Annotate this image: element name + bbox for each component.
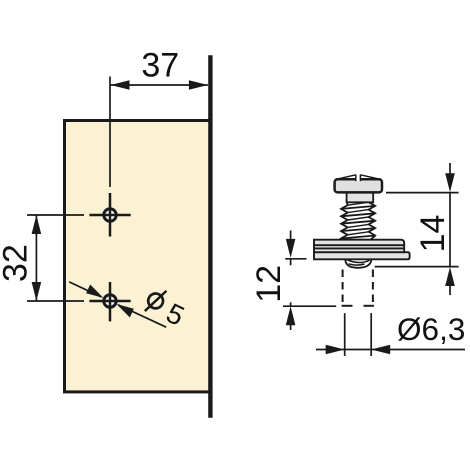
svg-text:37: 37 bbox=[141, 46, 179, 84]
svg-text:32: 32 bbox=[0, 244, 35, 282]
svg-text:Ø6,3: Ø6,3 bbox=[397, 311, 465, 347]
svg-text:12: 12 bbox=[250, 265, 288, 303]
svg-text:14: 14 bbox=[414, 215, 452, 253]
